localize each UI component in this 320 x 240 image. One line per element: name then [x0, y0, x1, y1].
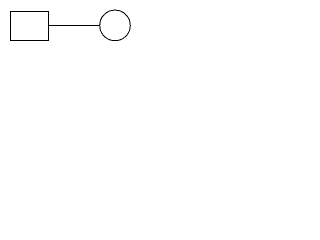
wire [49, 25, 101, 27]
circle node [100, 10, 131, 41]
rectangle node [11, 12, 49, 41]
